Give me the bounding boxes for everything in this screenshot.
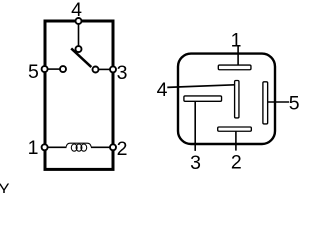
svg-text:5: 5 bbox=[28, 61, 39, 83]
switch hinge node bbox=[76, 46, 82, 52]
pin 5 slot bbox=[263, 82, 268, 124]
wire terminal 5 to open contact bbox=[47, 68, 60, 70]
terminal 1 bbox=[42, 144, 48, 150]
pin 4 leader line bbox=[167, 85, 234, 88]
switch blade (movable contact) bbox=[71, 48, 91, 67]
pin 3 slot bbox=[184, 96, 222, 101]
open contact node (pin 5 side) bbox=[60, 66, 66, 72]
pin 3 leader line bbox=[194, 101, 196, 151]
svg-text:4: 4 bbox=[157, 79, 168, 101]
wire from terminal 4 to switch hinge bbox=[78, 24, 80, 46]
pin 2 leader line bbox=[235, 131, 237, 151]
svg-text:Y: Y bbox=[0, 181, 10, 193]
terminal 4 bbox=[76, 18, 82, 24]
pin 4 slot (center) bbox=[235, 81, 239, 118]
svg-text:5: 5 bbox=[289, 92, 300, 114]
svg-text:4: 4 bbox=[71, 0, 82, 21]
svg-text:1: 1 bbox=[231, 30, 242, 52]
wire contact to terminal 3 bbox=[99, 68, 111, 70]
svg-text:1: 1 bbox=[28, 137, 39, 159]
wire coil to terminal 2 bbox=[91, 146, 111, 148]
svg-text:2: 2 bbox=[231, 151, 242, 173]
svg-text:3: 3 bbox=[190, 152, 201, 174]
svg-text:2: 2 bbox=[117, 138, 128, 160]
terminal 2 bbox=[110, 144, 116, 150]
pin 2 slot bbox=[218, 127, 252, 131]
relay connector body (right pin-layout box) bbox=[178, 54, 275, 144]
pin 1 slot bbox=[218, 65, 251, 70]
terminal 5 bbox=[42, 66, 48, 72]
pin 1 leader line bbox=[237, 46, 239, 66]
pin 5 leader line bbox=[268, 101, 290, 103]
coil L1 (relay winding) bbox=[66, 143, 91, 151]
terminal 3 bbox=[110, 66, 116, 72]
wire terminal 1 to coil bbox=[47, 146, 67, 148]
relay internal schematic outline (left box) bbox=[45, 21, 113, 169]
contact node (pin 3 side) bbox=[93, 67, 99, 73]
svg-text:3: 3 bbox=[117, 62, 128, 84]
